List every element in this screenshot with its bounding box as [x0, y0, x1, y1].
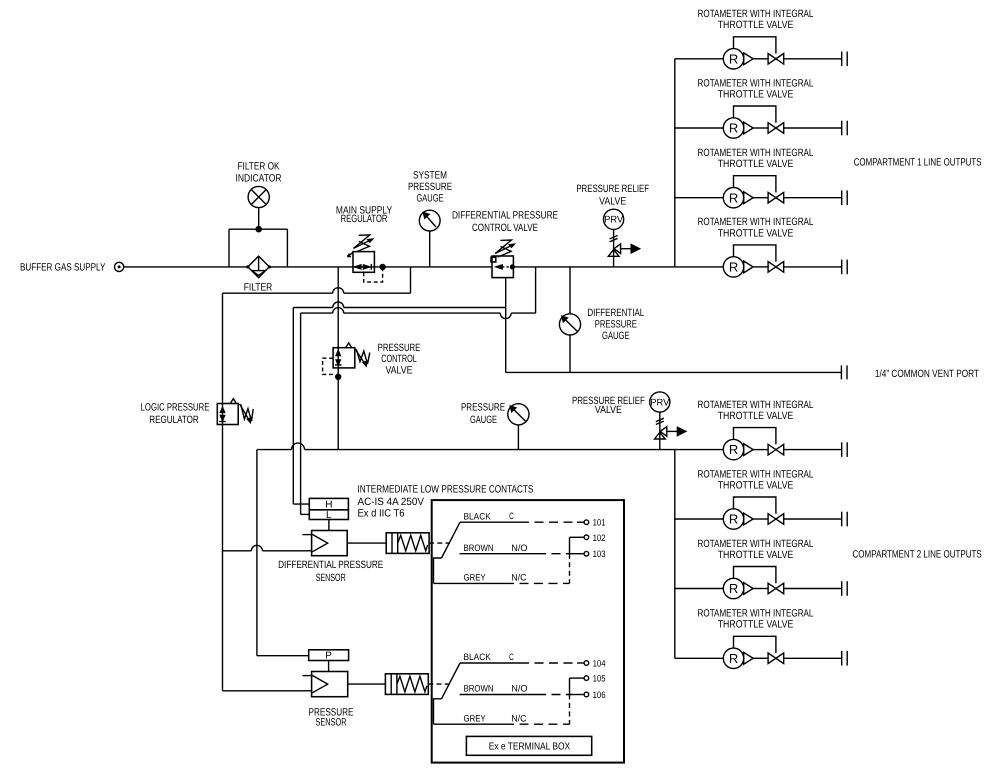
filter (diamond) — [248, 256, 270, 278]
label REGULATOR (logic) — [149, 414, 199, 426]
svg-text:THROTTLE VALVE: THROTTLE VALVE — [718, 549, 794, 561]
svg-text:DIFFERENTIAL PRESSURE: DIFFERENTIAL PRESSURE — [278, 559, 383, 571]
label PRESSURE RELIEF (top) — [576, 183, 649, 195]
svg-text:1/4” COMMON VENT PORT: 1/4” COMMON VENT PORT — [875, 368, 979, 380]
svg-text:SYSTEM: SYSTEM — [413, 169, 447, 181]
svg-text:GAUGE: GAUGE — [470, 414, 497, 426]
wire diff sensor input rail — [223, 550, 252, 552]
label PRESSURE — [408, 181, 452, 193]
label GAUGE (diff gauge) — [602, 330, 630, 342]
junction dot main line at regulator feedback — [379, 264, 385, 270]
svg-text:THROTTLE VALVE: THROTTLE VALVE — [718, 227, 794, 239]
svg-text:COMPARTMENT 2 LINE OUTPUTS: COMPARTMENT 2 LINE OUTPUTS — [853, 549, 982, 561]
svg-text:PRV: PRV — [650, 397, 670, 408]
rotameter with integral throttle valve — [675, 266, 724, 268]
gauge PRESSURE GAUGE (logic) — [508, 404, 529, 425]
node line output port — [841, 651, 843, 666]
indicator FILTER OK (circle with X) — [248, 186, 269, 207]
wire rail down to P port — [256, 450, 258, 656]
label DIFFERENTIAL — [587, 307, 644, 319]
label THROTTLE VALVE — [718, 549, 794, 561]
wire P box to sensor — [328, 661, 330, 672]
wire sensor 1 output — [347, 542, 386, 544]
label VALVE (PCV) — [385, 365, 412, 377]
svg-text:R: R — [729, 260, 738, 275]
rotameter with integral throttle valve — [675, 197, 724, 199]
wire main supply line segment 2 — [269, 266, 353, 268]
crossover hop line B under DPCV stem — [500, 313, 511, 319]
label VALVE (top PRV) — [599, 196, 626, 208]
junction dot below PCV — [335, 374, 341, 380]
svg-text:R: R — [729, 512, 738, 527]
label ROTAMETER WITH INTEGRAL — [698, 538, 814, 550]
svg-text:N/C: N/C — [511, 713, 527, 723]
wire N/C (grey) — [434, 723, 506, 725]
crossover hop line C over PCV line — [333, 288, 344, 294]
regulator MAIN SUPPLY REGULATOR — [353, 252, 374, 273]
wire line B (x535 to L port) — [535, 267, 537, 313]
terminal 106 — [584, 692, 589, 697]
svg-text:FILTER OK: FILTER OK — [237, 161, 279, 173]
wire main supply line segment 1 — [124, 266, 229, 268]
svg-text:VALVE: VALVE — [595, 404, 622, 416]
port box P — [309, 650, 349, 661]
wire compartment 2 trunk — [674, 450, 676, 659]
label THROTTLE VALVE — [718, 88, 794, 100]
sensor DIFFERENTIAL PRESSURE SENSOR — [312, 531, 348, 556]
wire into filter — [229, 266, 248, 268]
svg-text:GAUGE: GAUGE — [602, 330, 630, 342]
svg-text:PRESSURE: PRESSURE — [408, 181, 452, 193]
svg-text:L: L — [326, 510, 332, 521]
svg-text:105: 105 — [593, 674, 606, 684]
svg-text:REGULATOR: REGULATOR — [341, 213, 388, 225]
rotameter with integral throttle valve — [675, 58, 724, 60]
svg-text:R: R — [729, 442, 738, 457]
wire actuation dashes to contact 1 — [429, 542, 450, 544]
label THROTTLE VALVE — [718, 19, 794, 31]
wire N/O (brown) — [460, 553, 537, 555]
label PRESSURE (gauge 2) — [461, 401, 505, 413]
svg-text:INTERMEDIATE LOW PRESSURE CONT: INTERMEDIATE LOW PRESSURE CONTACTS — [358, 484, 534, 496]
label REGULATOR — [341, 213, 388, 225]
label GAUGE — [416, 192, 443, 204]
label THROTTLE VALVE — [718, 227, 794, 239]
svg-text:DIFFERENTIAL PRESSURE: DIFFERENTIAL PRESSURE — [452, 209, 558, 221]
svg-text:PRV: PRV — [604, 215, 624, 226]
svg-text:GAUGE: GAUGE — [416, 192, 443, 204]
svg-text:Ex e TERMINAL BOX: Ex e TERMINAL BOX — [489, 742, 571, 753]
label DIFFERENTIAL PRESSURE — [452, 209, 558, 221]
port box L — [309, 510, 348, 520]
label COMPARTMENT 1 LINE OUTPUTS — [854, 157, 982, 169]
wire pressure sensor input rail — [223, 690, 312, 692]
svg-text:CONTROL VALVE: CONTROL VALVE — [472, 222, 538, 234]
wire filter bypass left vertical — [228, 229, 230, 267]
svg-text:SENSOR: SENSOR — [316, 572, 346, 584]
wire line A (DPCV stem to H port) — [344, 307, 506, 309]
svg-text:PRESSURE RELIEF: PRESSURE RELIEF — [576, 183, 649, 195]
svg-text:LOGIC PRESSURE: LOGIC PRESSURE — [141, 402, 210, 414]
label THROTTLE VALVE — [718, 479, 794, 491]
svg-text:THROTTLE VALVE: THROTTLE VALVE — [718, 158, 794, 170]
svg-text:FILTER: FILTER — [244, 282, 273, 294]
valve PRESSURE RELIEF VALVE symbol — [604, 209, 624, 229]
wire indicator stem — [258, 208, 260, 230]
svg-text:R: R — [729, 651, 738, 666]
valve PRESSURE RELIEF VALVE symbol — [650, 392, 670, 412]
svg-text:N/C: N/C — [511, 573, 527, 583]
node line output port — [841, 52, 843, 67]
terminal 104 — [584, 661, 589, 666]
label ROTAMETER WITH INTEGRAL — [698, 608, 814, 620]
gauge DIFFERENTIAL PRESSURE GAUGE — [559, 314, 580, 335]
wire L box to sensor — [328, 520, 330, 531]
svg-text:104: 104 — [593, 659, 606, 669]
label LOGIC PRESSURE — [141, 402, 210, 414]
label MAIN SUPPLY — [336, 205, 392, 217]
crossover hop rail over H/L lines — [292, 443, 305, 449]
svg-text:102: 102 — [593, 533, 606, 543]
svg-text:CONTROL: CONTROL — [381, 353, 417, 365]
label PRESSURE (PCV) — [378, 342, 421, 354]
svg-text:PRESSURE: PRESSURE — [595, 319, 637, 331]
rotameter with integral throttle valve — [675, 588, 724, 590]
switch actuator (piston + spring) — [385, 674, 428, 695]
enclosure Ex e terminal box outline — [432, 500, 624, 762]
crossover hop line B over PCV line — [333, 308, 344, 313]
label THROTTLE VALVE — [718, 410, 794, 422]
label Ex d IIC T6 — [358, 508, 405, 520]
rotameter with integral throttle valve — [675, 518, 724, 520]
contact set 104/105/106 : changeover switch arm — [442, 663, 461, 699]
node vent port — [840, 365, 842, 379]
svg-text:BROWN: BROWN — [464, 684, 494, 694]
svg-text:THROTTLE VALVE: THROTTLE VALVE — [718, 619, 794, 631]
node line output port — [841, 121, 843, 136]
svg-text:R: R — [729, 581, 738, 596]
wire line C (main line to logic regulator) — [410, 267, 412, 293]
label ROTAMETER WITH INTEGRAL — [698, 399, 814, 411]
svg-text:106: 106 — [593, 690, 606, 700]
wire logic line down — [222, 425, 224, 691]
label ROTAMETER WITH INTEGRAL — [698, 216, 814, 228]
label INDICATOR — [236, 173, 282, 185]
wire compartment 2 rail — [257, 449, 292, 451]
wire sensor 2 output — [348, 683, 386, 685]
wire N/O (brown) — [460, 694, 537, 696]
svg-text:C: C — [509, 511, 514, 521]
svg-text:DIFFERENTIAL: DIFFERENTIAL — [587, 307, 644, 319]
label COMPARTMENT 2 LINE OUTPUTS — [853, 549, 982, 561]
port box H — [309, 498, 348, 509]
wire main supply line segment 4 — [513, 266, 674, 268]
svg-text:R: R — [729, 190, 738, 205]
svg-text:103: 103 — [593, 549, 606, 559]
contact set 101/102/103 : changeover switch arm — [442, 522, 461, 558]
regulator LOGIC PRESSURE REGULATOR — [217, 404, 238, 425]
label ROTAMETER WITH INTEGRAL — [698, 77, 814, 89]
rotameter with integral throttle valve — [675, 449, 724, 451]
svg-text:101: 101 — [593, 518, 606, 528]
node line output port — [841, 260, 843, 275]
junction dot filter bypass top — [255, 226, 262, 233]
label SENSOR (pressure) — [315, 717, 346, 729]
svg-text:P: P — [325, 650, 332, 661]
svg-text:THROTTLE VALVE: THROTTLE VALVE — [718, 410, 794, 422]
svg-text:VALVE: VALVE — [599, 196, 626, 208]
svg-text:AC-IS 4A 250V: AC-IS 4A 250V — [358, 496, 425, 508]
wire 1/4 inch common vent port line — [506, 371, 842, 373]
wire main supply line segment 3 — [374, 266, 492, 268]
terminal 101 — [584, 520, 589, 525]
switch actuator (piston + spring) — [386, 533, 429, 554]
label PRESSURE (sensor) — [309, 707, 354, 719]
terminal 103 — [584, 551, 589, 556]
node line output port — [841, 442, 843, 457]
svg-text:N/O: N/O — [511, 543, 527, 553]
wire compartment 1 trunk — [674, 59, 676, 267]
svg-text:COMPARTMENT 1 LINE OUTPUTS: COMPARTMENT 1 LINE OUTPUTS — [854, 157, 982, 169]
label FILTER — [244, 282, 273, 294]
label CONTROL VALVE — [472, 222, 538, 234]
svg-text:BLACK: BLACK — [464, 652, 492, 662]
label THROTTLE VALVE — [718, 158, 794, 170]
label AC-IS 4A 250V — [358, 496, 425, 508]
svg-text:C: C — [509, 652, 514, 662]
label GAUGE (gauge 2) — [470, 414, 497, 426]
wire N/C (grey) — [434, 582, 506, 584]
svg-text:INDICATOR: INDICATOR — [236, 173, 282, 185]
label PRESSURE (diff gauge) — [595, 319, 637, 331]
svg-text:REGULATOR: REGULATOR — [149, 414, 199, 426]
label ROTAMETER WITH INTEGRAL — [698, 147, 814, 159]
label 1/4 COMMON VENT PORT — [875, 368, 979, 380]
svg-text:R: R — [729, 51, 738, 66]
node line output port — [841, 190, 843, 205]
sensor PRESSURE SENSOR — [312, 672, 348, 697]
label SENSOR (diff) — [316, 572, 346, 584]
label ROTAMETER WITH INTEGRAL — [698, 8, 814, 20]
label CONTROL (PCV) — [381, 353, 417, 365]
svg-text:GREY: GREY — [464, 573, 486, 583]
label box Ex e TERMINAL BOX — [466, 736, 591, 755]
wire C (black) — [460, 521, 520, 523]
wire actuation dashes to contact 2 — [428, 683, 450, 685]
label PRESSURE RELIEF (lower) — [572, 395, 645, 407]
rotameter with integral throttle valve — [675, 657, 724, 659]
rotameter with integral throttle valve — [675, 127, 724, 129]
node line output port — [841, 512, 843, 527]
label DIFFERENTIAL PRESSURE (sensor) — [278, 559, 383, 571]
wire main line down to PCV — [337, 267, 339, 348]
label FILTER OK — [237, 161, 279, 173]
crossover hop line A over PCV line — [333, 302, 344, 308]
svg-text:N/O: N/O — [511, 684, 527, 694]
wire C (black) — [460, 662, 520, 664]
valve PRESSURE CONTROL VALVE — [333, 348, 355, 368]
svg-text:BROWN: BROWN — [464, 543, 494, 553]
wire DPCV outlet down to vent line — [505, 278, 507, 373]
wire main line to diff pressure gauge — [569, 267, 571, 314]
node line output port — [841, 581, 843, 596]
svg-text:THROTTLE VALVE: THROTTLE VALVE — [718, 479, 794, 491]
label INTERMEDIATE LOW PRESSURE CONTACTS — [358, 484, 534, 496]
terminal 105 — [584, 676, 589, 681]
label BUFFER GAS SUPPLY — [20, 262, 105, 274]
terminal 102 — [584, 535, 589, 540]
crossover hop sensor rail over P line — [251, 545, 262, 551]
svg-text:VALVE: VALVE — [385, 365, 412, 377]
valve DIFFERENTIAL PRESSURE CONTROL VALVE — [492, 256, 513, 278]
svg-text:Ex d IIC T6: Ex d IIC T6 — [358, 508, 405, 520]
svg-text:GREY: GREY — [464, 713, 486, 723]
label VALVE (lower PRV) — [595, 404, 622, 416]
svg-text:THROTTLE VALVE: THROTTLE VALVE — [718, 88, 794, 100]
node BUFFER GAS SUPPLY inlet — [115, 262, 124, 271]
wire PCV down to rail — [337, 368, 339, 450]
label ROTAMETER WITH INTEGRAL — [698, 468, 814, 480]
wire filter bypass right vertical — [286, 229, 288, 267]
gauge SYSTEM PRESSURE GAUGE — [419, 210, 440, 231]
svg-text:BUFFER GAS SUPPLY: BUFFER GAS SUPPLY — [20, 262, 105, 274]
svg-text:PRESSURE: PRESSURE — [461, 401, 505, 413]
svg-text:R: R — [729, 121, 738, 136]
label THROTTLE VALVE — [718, 619, 794, 631]
svg-text:SENSOR: SENSOR — [315, 717, 346, 729]
label SYSTEM — [413, 169, 447, 181]
svg-text:THROTTLE VALVE: THROTTLE VALVE — [718, 19, 794, 31]
svg-text:BLACK: BLACK — [464, 511, 492, 521]
wire filter bypass top — [229, 228, 287, 230]
